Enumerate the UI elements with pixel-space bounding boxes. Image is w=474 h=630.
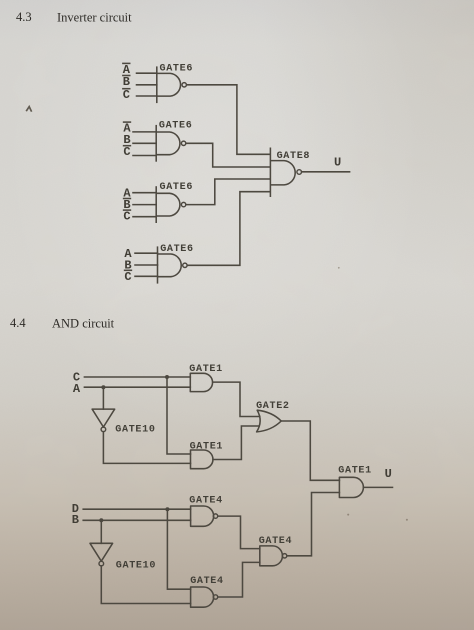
svg-text:GATE4: GATE4: [189, 495, 223, 506]
wire gate4 input 1: [135, 252, 158, 254]
wire GATE4c output to GATE4b input2: [218, 562, 260, 597]
wire gate2 input 2: [133, 142, 156, 144]
svg-text:GATE4: GATE4: [259, 536, 293, 547]
wire gate1 input 3: [137, 95, 157, 97]
wire D junction down to GATE4c input1: [167, 509, 190, 589]
wire gate1 input 1: [137, 72, 157, 74]
nand gate U5 GATE8 (4-input): [270, 148, 301, 198]
svg-text:4.4: 4.4: [10, 316, 26, 330]
svg-text:B: B: [123, 75, 130, 89]
svg-text:GATE1: GATE1: [338, 465, 372, 476]
wire GATE8 output: [302, 171, 350, 173]
wire GATE4b output to GATE1d input2: [287, 493, 340, 556]
inverter GATE10b: [90, 543, 113, 566]
wire GATE1d output: [364, 486, 393, 488]
wire gate3 input 3: [133, 216, 156, 218]
svg-text:GATE8: GATE8: [277, 151, 311, 162]
svg-text:GATE10: GATE10: [115, 424, 155, 435]
node label Cbar (gate3 input 3): [123, 210, 130, 224]
junction node on B: [99, 518, 103, 522]
svg-text:GATE6: GATE6: [160, 182, 194, 193]
svg-text:GATE4: GATE4: [190, 576, 224, 587]
and gate GATE1d (final): [339, 477, 363, 497]
and gate GATE1a: [190, 373, 212, 391]
nand gate U3 GATE6: [156, 186, 186, 223]
wire input D to GATE4a: [83, 508, 190, 510]
svg-text:GATE6: GATE6: [160, 244, 194, 255]
wire gate3 output to GATE8 input3: [186, 179, 269, 205]
wire gate4 input 2: [135, 264, 158, 266]
paper speck 3: [406, 519, 408, 521]
node label Abar (gate1 input 1): [123, 63, 131, 77]
wire gate4 output to GATE8 input4: [188, 192, 270, 266]
node label Cbar (gate4 input 3): [124, 270, 131, 284]
wire gate2 output to GATE8 input2: [186, 143, 269, 167]
wire B junction down to inverter b: [100, 520, 102, 543]
paper speck 1: [338, 267, 340, 269]
nand gate GATE4b (middle): [260, 546, 287, 566]
node label Bbar (gate3 input 2): [123, 198, 130, 212]
wire inverter b output to GATE4c input2: [101, 566, 190, 604]
svg-text:GATE1: GATE1: [190, 441, 224, 452]
svg-text:C: C: [123, 145, 130, 159]
svg-text:GATE6: GATE6: [159, 120, 193, 131]
nand gate U2 GATE6: [156, 125, 186, 162]
junction node on D: [165, 507, 169, 511]
wire input A to GATE1a: [84, 386, 190, 388]
wire gate4 input 3: [135, 275, 158, 277]
svg-text:C: C: [124, 270, 131, 284]
node label Bbar (gate1 input 2): [123, 75, 130, 89]
wire gate1 input 2: [137, 84, 157, 86]
and gate GATE1b: [191, 450, 213, 469]
wire input C to GATE1a: [84, 376, 190, 378]
wire GATE1b output to GATE2 input2: [213, 426, 259, 460]
junction node on A: [101, 385, 105, 389]
svg-text:4.3: 4.3: [16, 10, 32, 24]
svg-text:A: A: [73, 382, 81, 396]
nand gate U4 GATE6 (bottom): [158, 246, 188, 283]
nand gate GATE4c: [191, 587, 218, 607]
inverter GATE10a: [92, 409, 115, 432]
wire GATE2 output to GATE1d input1: [281, 421, 339, 480]
node label B (gate4 input 2): [124, 258, 131, 272]
node label Cbar (gate1 input 3): [123, 88, 130, 102]
wire C junction down to GATE1b input1: [167, 377, 191, 454]
wire gate1 output to GATE8 input1: [187, 85, 270, 155]
junction node on C: [165, 375, 169, 379]
wire input B to GATE4a: [83, 519, 190, 521]
svg-text:GATE10: GATE10: [116, 560, 156, 571]
svg-text:B: B: [72, 513, 79, 527]
paper speck 2: [347, 514, 349, 516]
wire gate3 input 2: [133, 204, 156, 206]
nand gate GATE4a: [191, 506, 218, 526]
node label B (gate2 input 2): [123, 133, 130, 147]
pencil mark top-left: [26, 107, 31, 112]
svg-text:U: U: [385, 467, 392, 481]
node label A (gate4 input 1): [124, 247, 132, 261]
node label A (gate3 input 1): [123, 186, 131, 200]
svg-text:C: C: [123, 210, 130, 224]
wire GATE4a output to GATE4b input1: [218, 516, 260, 549]
wire gate2 input 3: [133, 155, 156, 157]
node label Cbar (gate2 input 3): [123, 145, 130, 159]
wire gate3 input 1: [133, 192, 156, 194]
wire inverter a output to GATE1b input2: [103, 432, 190, 464]
svg-text:Inverter circuit: Inverter circuit: [57, 11, 132, 25]
wire gate2 input 1: [133, 131, 156, 133]
nand gate U1 GATE6 (top): [157, 66, 187, 103]
svg-text:GATE1: GATE1: [189, 364, 223, 375]
or gate GATE2: [257, 410, 282, 432]
svg-text:GATE2: GATE2: [256, 401, 290, 412]
wire A junction down to inverter: [102, 387, 104, 409]
svg-text:C: C: [123, 88, 130, 102]
svg-text:AND circuit: AND circuit: [52, 317, 115, 331]
svg-text:GATE6: GATE6: [160, 64, 194, 75]
svg-text:U: U: [334, 156, 341, 170]
node label Abar (gate2 input 1): [123, 122, 131, 136]
wire GATE1a output to GATE2 input1: [213, 382, 260, 416]
